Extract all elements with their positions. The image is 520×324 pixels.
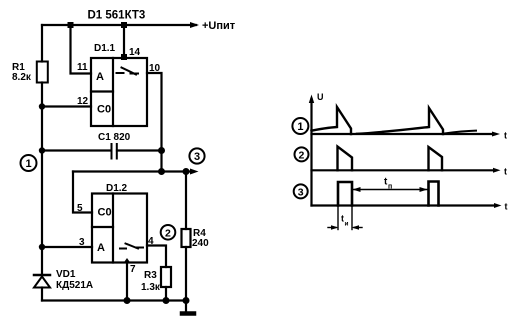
wire R4 bottom lead — [185, 247, 187, 301]
node 3 — [189, 148, 204, 163]
svg-text:t: t — [505, 202, 508, 212]
dimension tи below axis — [328, 207, 362, 230]
svg-text:D1.2: D1.2 — [106, 183, 128, 194]
wire R3 bottom lead — [165, 287, 167, 301]
wire pin 7 — [126, 263, 128, 301]
wire pin 11 — [71, 25, 92, 74]
dimension arrow tп between pulses — [353, 187, 428, 192]
ground — [182, 301, 194, 314]
junction loop/pin10 — [158, 168, 165, 175]
junction pin14 at box top — [121, 54, 127, 60]
junction loop/R4 — [183, 168, 190, 175]
junction top rail / pin14 branch — [121, 22, 127, 28]
junction bottom R4/ground — [183, 297, 190, 304]
svg-text:5: 5 — [77, 203, 83, 214]
label R3 1.3к — [141, 270, 161, 293]
wire R1 top lead — [41, 25, 43, 62]
waveform 2 pulses — [338, 147, 353, 171]
junction bottom pin7 — [124, 297, 131, 304]
svg-text:14: 14 — [129, 47, 141, 58]
svg-text:4: 4 — [148, 236, 154, 247]
wire left rail middle — [41, 151, 43, 248]
svg-text:A: A — [97, 242, 105, 254]
node 3 (diagram) — [294, 184, 308, 198]
svg-text:11: 11 — [77, 62, 88, 73]
wire loop top row to node 3 — [73, 170, 192, 172]
wire R4 top lead — [185, 172, 187, 230]
label R1 8.2к — [12, 62, 32, 83]
svg-text:R3: R3 — [144, 270, 157, 281]
axis U vertical — [310, 99, 312, 206]
node 1 (diagram) — [292, 118, 308, 134]
svg-text:12: 12 — [77, 96, 89, 107]
svg-text:1: 1 — [297, 121, 303, 133]
junction bottom R3 — [163, 297, 170, 304]
wire R1 bottom lead down left rail — [41, 83, 43, 151]
svg-text:и: и — [345, 221, 349, 228]
svg-text:C0: C0 — [97, 104, 111, 116]
wire bottom rail — [42, 299, 186, 301]
resistor R3 — [161, 267, 171, 287]
svg-text:C0: C0 — [98, 207, 112, 219]
svg-text:D1 561КТ3: D1 561КТ3 — [88, 10, 146, 22]
svg-text:A: A — [96, 71, 104, 83]
node 2 — [161, 225, 176, 240]
label tи — [341, 214, 349, 228]
junction right rail C1 — [158, 147, 165, 154]
op-amp U1 : switch block D1.1 — [91, 58, 147, 126]
label VD1 КД521А — [56, 269, 93, 291]
wire pin 4 to R3 — [147, 246, 166, 268]
switch symbol D1.2 — [120, 244, 143, 249]
resistor R4 — [182, 229, 191, 247]
wire pin 10 — [147, 73, 162, 172]
junction left rail pin12 — [39, 103, 45, 109]
waveform 3 pulses — [338, 182, 352, 206]
wire pin 14 — [123, 25, 125, 58]
switch symbol D1.1 — [117, 68, 139, 75]
svg-text:3: 3 — [298, 186, 304, 198]
label tп — [384, 177, 392, 191]
junction top rail / pin11 branch — [68, 22, 74, 28]
svg-text:8.2к: 8.2к — [12, 72, 32, 83]
capacitor C1 — [112, 144, 117, 159]
svg-text:C1 820: C1 820 — [98, 132, 131, 143]
svg-text:1.3к: 1.3к — [141, 282, 161, 293]
svg-text:D1.1: D1.1 — [94, 43, 116, 54]
node 3 arrowhead — [190, 169, 199, 175]
svg-text:КД521А: КД521А — [56, 280, 93, 291]
axis t1 — [312, 133, 496, 135]
svg-text:t: t — [504, 131, 507, 141]
svg-text:3: 3 — [194, 151, 200, 163]
svg-text:240: 240 — [192, 238, 209, 249]
svg-text:п: п — [388, 184, 392, 191]
axis t2 — [312, 169, 497, 171]
svg-text:t: t — [504, 166, 507, 176]
wire pin 5 — [73, 172, 92, 213]
svg-text:+Uпит: +Uпит — [202, 20, 236, 32]
resistor R1 — [37, 62, 48, 83]
wire pin 3 — [42, 246, 92, 248]
svg-text:2: 2 — [299, 149, 305, 161]
waveform 1 sawtooth — [312, 107, 352, 134]
svg-text:3: 3 — [79, 237, 85, 248]
wire pin 12 — [42, 105, 91, 107]
svg-text:2: 2 — [165, 228, 171, 240]
svg-text:U: U — [317, 92, 324, 102]
axis t3 — [312, 204, 495, 206]
svg-text:10: 10 — [149, 63, 161, 74]
svg-text:VD1: VD1 — [56, 269, 76, 280]
pin 7 arrow mark — [124, 258, 131, 263]
junction left rail pin3 — [39, 244, 45, 250]
svg-text:1: 1 — [26, 158, 32, 170]
label R4 240 — [192, 228, 209, 249]
junction left rail C1 — [39, 147, 45, 153]
node +Uпит arrowhead — [190, 22, 199, 28]
op-amp U2 : switch block D1.2 — [92, 194, 147, 263]
node 2 (diagram) — [295, 147, 309, 161]
node 1 — [21, 155, 37, 171]
wire C1 row — [42, 149, 111, 151]
wire top supply rail — [42, 24, 196, 26]
diode VD1 — [34, 247, 50, 301]
svg-text:7: 7 — [130, 264, 136, 275]
